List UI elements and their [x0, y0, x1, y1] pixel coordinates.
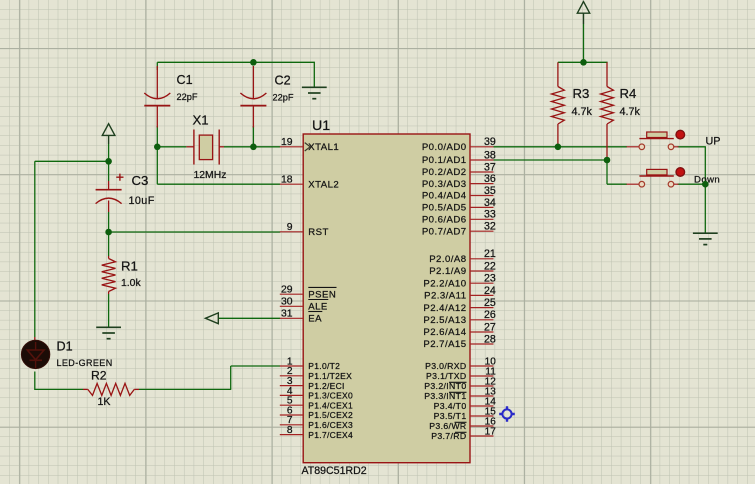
op-amp U1 body AT89C51RD2	[303, 134, 470, 463]
pin 3 (P1.2/ECI)	[280, 376, 345, 391]
D1 value label LED-GREEN	[57, 358, 113, 368]
svg-text:18: 18	[281, 175, 293, 186]
wire C2 lead segment	[252, 126, 254, 147]
svg-text:P2.6/A14: P2.6/A14	[423, 327, 466, 338]
svg-text:P0.6/AD6: P0.6/AD6	[422, 215, 467, 226]
pin 4 (P1.3/CEX0)	[280, 386, 353, 401]
node junction C2-crystal	[250, 144, 257, 151]
pin XTAL1 clock chevron	[305, 143, 311, 151]
svg-text:P2.0/A8: P2.0/A8	[429, 254, 466, 265]
pin 36 (P0.3/AD3)	[422, 173, 496, 190]
resistor R1	[102, 256, 116, 294]
pin 24 (P2.3/A11)	[424, 285, 496, 302]
pin 5 (P1.4/CEX1)	[280, 396, 353, 411]
wire LED cathode down and to R2	[35, 372, 83, 391]
power terminal VCC left	[102, 124, 115, 136]
pin 35 (P0.4/AD4)	[422, 185, 496, 202]
R1 value label 1.0k	[121, 278, 141, 289]
svg-text:32: 32	[484, 221, 496, 233]
capacitor C3 polarized	[96, 174, 124, 212]
svg-text:17: 17	[485, 426, 497, 437]
svg-text:UP: UP	[706, 135, 721, 147]
svg-text:P1.6/CEX3: P1.6/CEX3	[308, 420, 353, 430]
pin 10 (P3.0/RXD)	[425, 356, 496, 371]
svg-text:22: 22	[484, 260, 496, 272]
svg-text:D1: D1	[57, 340, 73, 354]
pin 8 (P1.7/CEX4)	[280, 425, 353, 440]
svg-text:21: 21	[484, 248, 496, 260]
wire net P0.1 row to R4 bottom	[494, 159, 608, 161]
svg-text:EA: EA	[308, 314, 322, 325]
svg-text:C1: C1	[177, 73, 193, 87]
node junction RST	[105, 229, 112, 236]
node junction Down-ground	[702, 181, 709, 188]
svg-text:27: 27	[484, 321, 496, 333]
pin 38 (P0.1/AD1)	[422, 149, 496, 166]
pin 25 (P2.4/A12)	[423, 297, 495, 314]
svg-text:P2.1/A9: P2.1/A9	[429, 266, 466, 277]
svg-text:P0.2/AD2: P0.2/AD2	[422, 167, 467, 178]
svg-text:P1.4/CEX1: P1.4/CEX1	[308, 400, 353, 410]
pin 19 (XTAL1)	[280, 137, 339, 153]
pin 15 (P3.5/T1)	[434, 406, 497, 421]
C1 value label 22pF	[177, 92, 198, 102]
svg-text:22pF: 22pF	[177, 92, 198, 102]
C3 reference label	[132, 173, 149, 188]
pin 32 (P0.7/AD7)	[422, 221, 496, 238]
wire Down switch to ground stem	[678, 184, 706, 233]
svg-text:P3.5/T1: P3.5/T1	[434, 411, 467, 421]
wire RST row	[109, 231, 281, 233]
svg-text:R1: R1	[121, 258, 138, 273]
wire R4 bottom jog down to Down switch	[607, 160, 627, 184]
svg-text:P0.5/AD5: P0.5/AD5	[422, 203, 467, 214]
svg-text:C2: C2	[275, 74, 291, 88]
svg-text:39: 39	[484, 136, 496, 148]
pin 39 (P0.0/AD0)	[422, 136, 496, 153]
svg-text:23: 23	[484, 273, 496, 285]
svg-text:24: 24	[484, 285, 496, 297]
U1 reference label	[312, 118, 330, 134]
resistor R3	[552, 62, 565, 147]
svg-text:1K: 1K	[98, 396, 111, 408]
pin 12 (P3.2/INT0)	[424, 376, 496, 391]
ground terminal bottom right	[693, 233, 718, 244]
D1 reference label	[57, 340, 73, 354]
pin 29 (PSEN)	[280, 285, 337, 301]
svg-text:38: 38	[484, 149, 496, 161]
ground terminal near C2	[302, 87, 327, 98]
resistor R2	[83, 383, 139, 395]
wire R1 bottom to ground	[108, 294, 110, 327]
pin 18 (XTAL2)	[280, 175, 339, 191]
pin 16 (P3.6/WR)	[429, 416, 496, 431]
pin 23 (P2.2/A10)	[423, 273, 495, 290]
svg-text:P2.5/A13: P2.5/A13	[423, 315, 466, 326]
input terminal arrow on EA	[205, 313, 218, 324]
wire C3 bottom to RST junction	[108, 212, 110, 232]
wire net P0.0 row to UP switch	[494, 146, 628, 148]
svg-text:R4: R4	[620, 86, 637, 101]
C1 reference label	[177, 73, 193, 87]
pin 17 (P3.7/RD)	[431, 426, 496, 441]
C2 reference label	[275, 74, 291, 88]
svg-text:P0.7/AD7: P0.7/AD7	[422, 226, 467, 237]
R2 reference label	[91, 369, 107, 383]
svg-text:XTAL2: XTAL2	[308, 179, 339, 190]
X1 value label 12MHz	[194, 170, 227, 181]
svg-text:P1.1/T2EX: P1.1/T2EX	[308, 371, 352, 381]
wire VCC left rail down to C3	[108, 135, 110, 181]
svg-text:ALE: ALE	[308, 302, 327, 313]
svg-text:AT89C51RD2: AT89C51RD2	[302, 465, 367, 477]
pin 22 (P2.1/A9)	[429, 260, 496, 277]
pin 11 (P3.1/TXD)	[426, 366, 496, 381]
ground terminal below R1	[96, 327, 121, 338]
wire UP switch to right corner	[678, 147, 706, 184]
pin 1 (P1.0/T2)	[280, 356, 340, 371]
svg-text:RST: RST	[308, 227, 329, 238]
node junction VCC rail	[580, 59, 587, 66]
svg-text:31: 31	[281, 309, 293, 320]
svg-text:P3.1/TXD: P3.1/TXD	[426, 371, 466, 381]
svg-text:P3.4/T0: P3.4/T0	[434, 401, 467, 411]
svg-text:P0.4/AD4: P0.4/AD4	[422, 191, 467, 202]
wire R2 to P1.0 corner	[139, 366, 280, 389]
pin 14 (P3.4/T0)	[434, 396, 497, 411]
svg-text:10uF: 10uF	[129, 195, 155, 207]
svg-text:PSEN: PSEN	[308, 289, 336, 300]
node label UP	[706, 135, 721, 147]
svg-text:33: 33	[484, 209, 496, 221]
crystal X1	[186, 130, 224, 165]
R3 value label 4.7k	[572, 106, 593, 118]
svg-text:P0.1/AD1: P0.1/AD1	[422, 155, 467, 166]
svg-text:P3.0/RXD: P3.0/RXD	[425, 361, 466, 371]
svg-text:P1.7/CEX4: P1.7/CEX4	[308, 430, 353, 440]
wire R3-R4 top rail	[558, 61, 608, 63]
svg-text:4.7k: 4.7k	[572, 106, 593, 118]
pin 28 (P2.7/A15)	[423, 333, 495, 350]
R2 value label 1K	[98, 396, 111, 408]
capacitor C1	[144, 66, 170, 128]
svg-text:P1.0/T2: P1.0/T2	[308, 361, 340, 371]
svg-text:28: 28	[484, 333, 496, 345]
pin 7 (P1.6/CEX3)	[280, 415, 353, 430]
svg-text:XTAL1: XTAL1	[308, 142, 339, 153]
svg-text:LED-GREEN: LED-GREEN	[57, 358, 113, 368]
wire top rail C1 to C2 to ground corner	[157, 62, 315, 87]
node junction C1-crystal	[154, 144, 161, 151]
button Down switch	[627, 168, 685, 187]
node junction R3-P0.0	[555, 144, 562, 151]
svg-text:35: 35	[484, 185, 496, 197]
svg-text:P1.3/CEX0: P1.3/CEX0	[308, 391, 353, 401]
wire RST junction to R1	[108, 232, 110, 256]
pin 27 (P2.6/A14)	[423, 321, 495, 338]
capacitor C2	[240, 66, 266, 128]
svg-text:C3: C3	[132, 173, 149, 188]
svg-text:37: 37	[484, 161, 496, 173]
pin 2 (P1.1/T2EX)	[280, 366, 352, 381]
svg-text:36: 36	[484, 173, 496, 185]
node junction LED branch	[105, 158, 112, 165]
svg-text:P1.5/CEX2: P1.5/CEX2	[308, 410, 353, 420]
C2 value label 22pF	[273, 93, 294, 103]
svg-text:30: 30	[281, 297, 293, 308]
pin 26 (P2.5/A13)	[423, 309, 495, 326]
R4 reference label	[620, 86, 637, 101]
svg-text:29: 29	[281, 285, 293, 296]
U1 value label AT89C51RD2	[302, 465, 367, 477]
svg-text:12MHz: 12MHz	[194, 170, 227, 181]
wire C1 lead segments	[156, 62, 158, 147]
svg-text:P2.3/A11: P2.3/A11	[424, 291, 466, 302]
svg-text:4.7k: 4.7k	[620, 106, 641, 118]
wire EA terminal to pin 31	[218, 317, 280, 319]
pin 13 (P3.3/INT1)	[424, 386, 496, 401]
pin 6 (P1.5/CEX2)	[280, 405, 353, 420]
pin 21 (P2.0/A8)	[429, 248, 496, 265]
svg-text:P1.2/ECI: P1.2/ECI	[308, 381, 344, 391]
wire VCC rail top-right vertical	[583, 13, 585, 62]
R3 reference label	[573, 86, 590, 101]
pin 37 (P0.2/AD2)	[422, 161, 496, 178]
pin 31 (EA)	[280, 309, 323, 325]
LED D1	[21, 337, 49, 369]
pin 30 (ALE)	[280, 297, 329, 313]
X1 reference label	[193, 113, 209, 128]
svg-text:25: 25	[484, 297, 496, 309]
wire LED branch horizontal	[35, 160, 109, 162]
pin 34 (P0.5/AD5)	[422, 197, 496, 214]
svg-text:P0.3/AD3: P0.3/AD3	[422, 179, 467, 190]
svg-text:26: 26	[484, 309, 496, 321]
power terminal VCC right	[577, 2, 589, 14]
svg-text:P2.2/A10: P2.2/A10	[423, 278, 466, 289]
svg-text:8: 8	[287, 425, 293, 436]
svg-text:R3: R3	[573, 86, 590, 101]
svg-text:P0.0/AD0: P0.0/AD0	[422, 142, 467, 153]
svg-text:R2: R2	[91, 369, 107, 383]
svg-text:22pF: 22pF	[273, 93, 294, 103]
svg-text:9: 9	[287, 222, 293, 233]
button UP switch	[627, 130, 685, 149]
wire crystal left junction to XTAL2 jog	[157, 147, 280, 184]
origin marker cursor	[499, 406, 515, 422]
wire LED anode vertical	[34, 161, 36, 337]
svg-text:X1: X1	[193, 113, 209, 128]
svg-text:U1: U1	[312, 118, 330, 134]
node label Down	[694, 174, 720, 185]
R1 reference label	[121, 258, 138, 273]
C3 value label 10uF	[129, 195, 155, 207]
svg-text:34: 34	[484, 197, 496, 209]
svg-text:P2.4/A12: P2.4/A12	[423, 303, 466, 314]
svg-text:1.0k: 1.0k	[121, 278, 141, 289]
node junction R4-P0.1	[604, 157, 611, 164]
node junction C2 top	[250, 59, 257, 66]
svg-text:P2.7/A15: P2.7/A15	[423, 339, 466, 350]
svg-text:19: 19	[281, 137, 293, 148]
resistor R4	[601, 62, 614, 160]
pin 9 (RST)	[280, 222, 329, 238]
wire crystal junctions to XTAL1 pin	[157, 146, 280, 148]
pin 33 (P0.6/AD6)	[422, 209, 496, 226]
R4 value label 4.7k	[620, 106, 641, 118]
